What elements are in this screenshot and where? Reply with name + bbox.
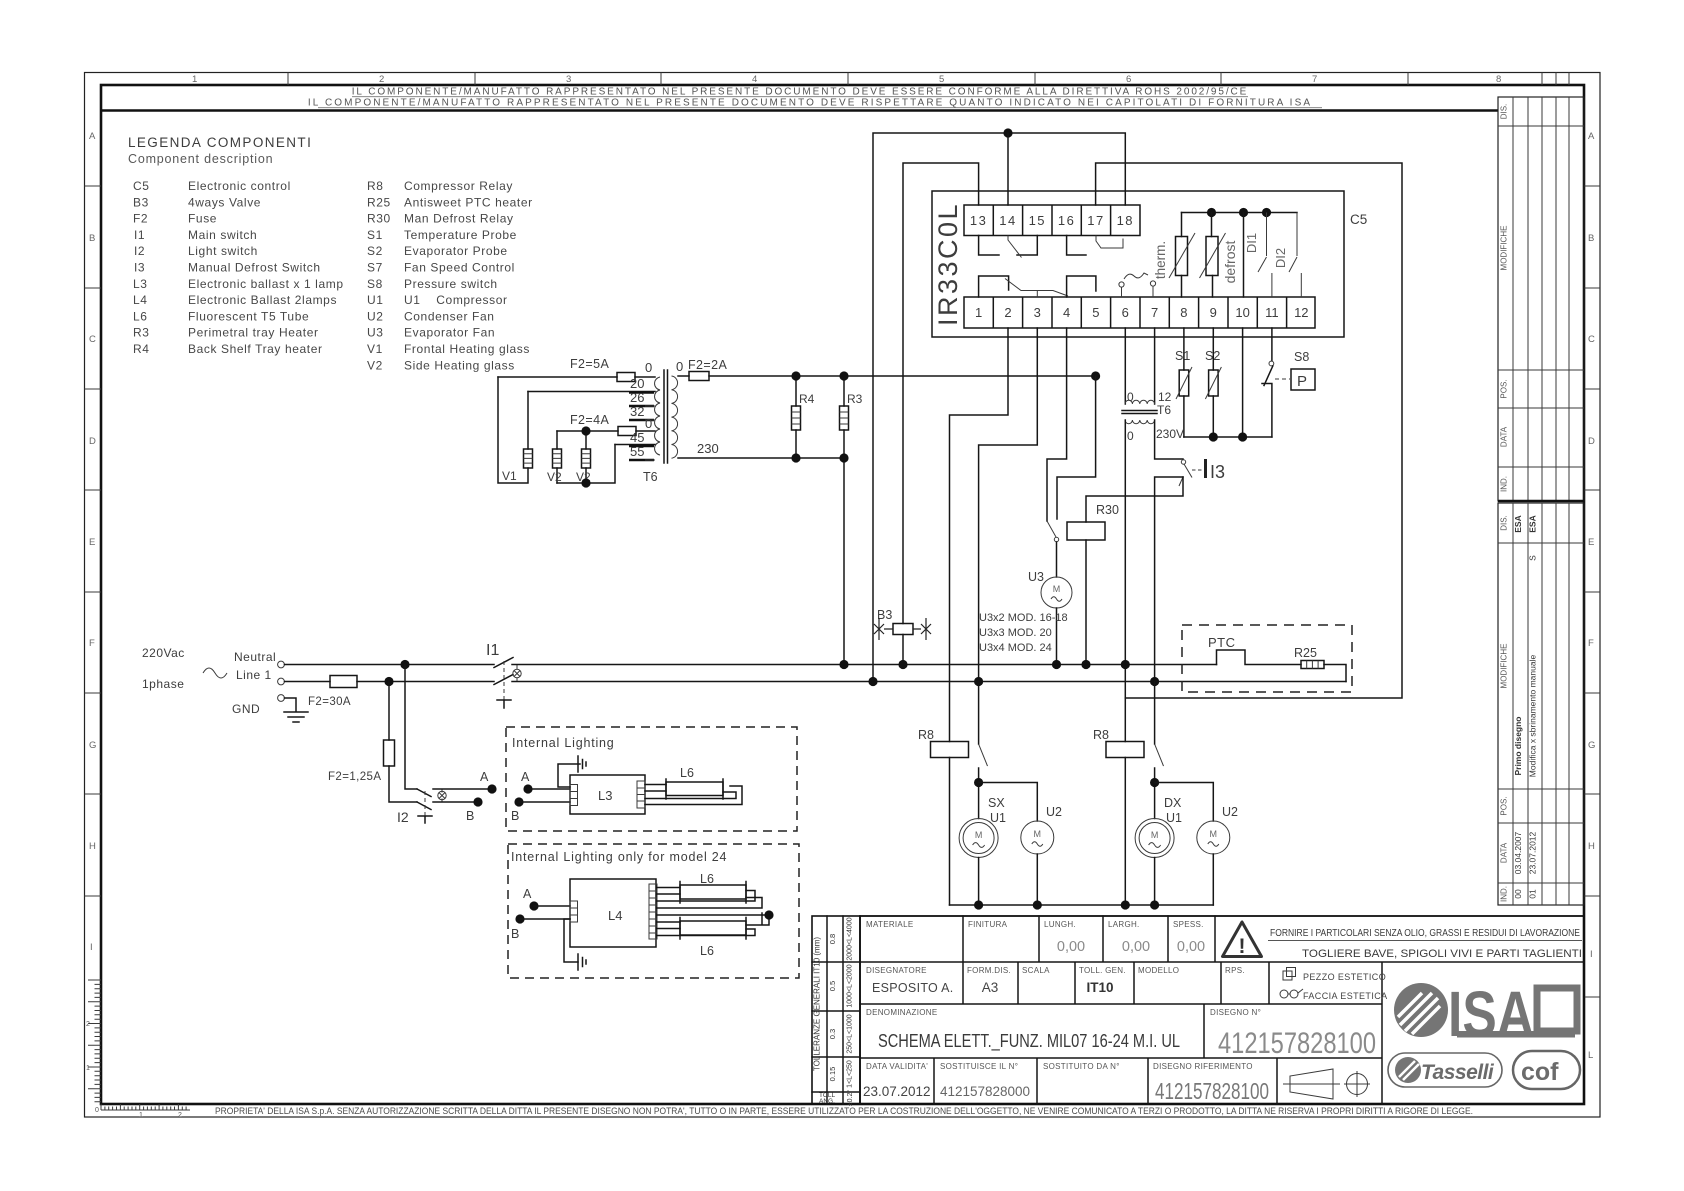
svg-text:U2: U2 bbox=[1222, 805, 1238, 819]
svg-text:U3: U3 bbox=[1028, 570, 1044, 584]
svg-text:03.04.2007: 03.04.2007 bbox=[1513, 831, 1523, 874]
svg-text:S7: S7 bbox=[367, 261, 383, 275]
svg-text:F2=4A: F2=4A bbox=[570, 413, 609, 427]
svg-text:6: 6 bbox=[1122, 305, 1129, 320]
svg-text:7: 7 bbox=[1151, 305, 1158, 320]
junction line A to 14 bbox=[1003, 128, 1012, 137]
wire term4 staircase bbox=[1047, 328, 1067, 521]
COF logo bbox=[1513, 1051, 1580, 1089]
svg-text:F: F bbox=[1588, 638, 1594, 649]
svg-text:Neutral: Neutral bbox=[234, 650, 276, 664]
svg-text:0.5: 0.5 bbox=[828, 981, 837, 991]
svg-text:ANG.: ANG. bbox=[819, 1098, 835, 1105]
svg-text:TOLLERANZE GENERALI IT10 (mm): TOLLERANZE GENERALI IT10 (mm) bbox=[813, 937, 822, 1071]
svg-text:0,00: 0,00 bbox=[1177, 939, 1205, 955]
junction term3 line bus bbox=[974, 677, 983, 686]
changeover contact 3-4-5 bbox=[1067, 276, 1096, 297]
node A inside box2 bbox=[529, 901, 538, 910]
svg-text:412157828000: 412157828000 bbox=[940, 1084, 1030, 1099]
svg-text:Man Defrost Relay: Man Defrost Relay bbox=[404, 212, 514, 226]
svg-text:IND.: IND. bbox=[1500, 886, 1509, 902]
junction R30 neutral bbox=[1081, 660, 1090, 669]
svg-text:17: 17 bbox=[1087, 213, 1104, 228]
terminal Neutral bbox=[278, 661, 285, 668]
projection symbol circle bbox=[1347, 1074, 1368, 1095]
wire pin10 down bbox=[1242, 328, 1244, 437]
svg-text:5: 5 bbox=[939, 74, 944, 85]
svg-text:±0.2°: ±0.2° bbox=[846, 1090, 854, 1107]
svg-text:230V: 230V bbox=[1156, 427, 1184, 441]
svg-text:FACCIA ESTETICA: FACCIA ESTETICA bbox=[1303, 991, 1388, 1001]
internal lighting dashed box bbox=[506, 727, 797, 831]
svg-text:I3: I3 bbox=[1210, 462, 1225, 482]
svg-text:C: C bbox=[89, 334, 96, 345]
motor return bus bbox=[950, 904, 1214, 906]
svg-text:SOSTITUITO DA N°: SOSTITUITO DA N° bbox=[1043, 1062, 1120, 1071]
svg-text:B: B bbox=[511, 927, 519, 941]
svg-text:7: 7 bbox=[1312, 74, 1317, 85]
svg-text:defrost: defrost bbox=[1222, 240, 1238, 283]
svg-text:SOSTITUISCE IL N°: SOSTITUISCE IL N° bbox=[940, 1062, 1018, 1071]
svg-text:B: B bbox=[511, 809, 519, 823]
svg-text:SX: SX bbox=[988, 796, 1005, 810]
heater V1 bbox=[498, 377, 528, 483]
svg-text:G: G bbox=[89, 740, 96, 751]
svg-text:Internal Lighting: Internal Lighting bbox=[512, 736, 615, 750]
svg-text:U1: U1 bbox=[990, 811, 1006, 825]
svg-text:cof: cof bbox=[1521, 1058, 1559, 1086]
svg-text:1: 1 bbox=[139, 1112, 143, 1119]
banner bottom rule bbox=[101, 109, 1498, 111]
svg-text:U3x2 MOD. 16-18: U3x2 MOD. 16-18 bbox=[979, 612, 1068, 624]
svg-text:1: 1 bbox=[975, 305, 982, 320]
svg-text:L6: L6 bbox=[133, 309, 148, 323]
valve B3 left symbol bbox=[874, 618, 893, 640]
svg-text:I1: I1 bbox=[486, 642, 499, 659]
L3 input connector bbox=[570, 785, 578, 806]
svg-text:D: D bbox=[1588, 436, 1595, 447]
L4 input connector bbox=[570, 901, 578, 922]
L3 output connector bbox=[637, 781, 645, 808]
svg-text:L6: L6 bbox=[700, 944, 714, 958]
svg-text:11: 11 bbox=[1265, 305, 1279, 320]
svg-text:A3: A3 bbox=[982, 980, 999, 995]
svg-text:Primo disegno: Primo disegno bbox=[1513, 716, 1523, 775]
svg-text:I2: I2 bbox=[397, 809, 409, 825]
svg-text:PEZZO ESTETICO: PEZZO ESTETICO bbox=[1303, 972, 1386, 982]
wire fuse to I2 bbox=[389, 766, 417, 802]
svg-text:DENOMINAZIONE: DENOMINAZIONE bbox=[866, 1008, 937, 1017]
R8 SX contact bbox=[979, 744, 988, 766]
svg-text:Frontal Heating glass: Frontal Heating glass bbox=[404, 342, 530, 356]
junction U3 neutral bbox=[1052, 660, 1061, 669]
LEGEND bbox=[128, 135, 533, 372]
svg-text:IL COMPONENTE/MANUFATTO RAPPRE: IL COMPONENTE/MANUFATTO RAPPRESENTATO NE… bbox=[352, 87, 1248, 98]
svg-text:C: C bbox=[1588, 334, 1595, 345]
svg-text:F2: F2 bbox=[133, 212, 148, 226]
faccia estetica icon bbox=[1280, 989, 1303, 998]
wire A to L3 bbox=[528, 788, 570, 790]
svg-text:B: B bbox=[466, 809, 474, 823]
svg-text:F2=2A: F2=2A bbox=[688, 358, 727, 372]
svg-text:SCALA: SCALA bbox=[1022, 966, 1050, 975]
svg-text:230: 230 bbox=[697, 441, 719, 456]
wire tap 20 bbox=[528, 391, 655, 393]
svg-text:0.8: 0.8 bbox=[828, 934, 837, 944]
svg-text:0.3: 0.3 bbox=[828, 1029, 837, 1039]
svg-text:TOGLIERE BAVE, SPIGOLI VIVI E: TOGLIERE BAVE, SPIGOLI VIVI E PARTI TAGL… bbox=[1302, 948, 1582, 960]
L4 ground wire bbox=[564, 919, 578, 962]
transformer core bbox=[1122, 411, 1157, 414]
fuse F2=1,25A bbox=[384, 740, 395, 766]
node A dot bbox=[487, 784, 496, 793]
wire line B left to 13 bbox=[903, 163, 979, 624]
svg-text:Electronic Ballast 2lamps: Electronic Ballast 2lamps bbox=[188, 293, 337, 307]
pin 7 supply circle bbox=[1150, 281, 1155, 286]
junction term6 line on neutral bbox=[1121, 660, 1130, 669]
svg-text:L3: L3 bbox=[133, 277, 148, 291]
svg-text:Temperature Probe: Temperature Probe bbox=[404, 228, 517, 242]
lamp symbol on I2 bbox=[438, 791, 446, 799]
ground symbol bbox=[284, 698, 308, 722]
svg-text:412157828100: 412157828100 bbox=[1218, 1027, 1376, 1060]
wire term5 staircase bbox=[1057, 376, 1096, 519]
DI2 contact bbox=[1289, 213, 1301, 298]
terminal strip 13-18 bbox=[964, 205, 1140, 236]
svg-text:4: 4 bbox=[752, 74, 757, 85]
svg-text:U3x3 MOD. 20: U3x3 MOD. 20 bbox=[979, 627, 1052, 639]
svg-text:U2: U2 bbox=[367, 309, 384, 323]
svg-text:H: H bbox=[89, 841, 96, 852]
PTC dashed box bbox=[1182, 625, 1352, 692]
svg-text:S: S bbox=[1528, 555, 1538, 561]
wire line bus left bbox=[357, 681, 494, 683]
svg-text:IL COMPONENTE/MANUFATTO RAPPRE: IL COMPONENTE/MANUFATTO RAPPRESENTATO NE… bbox=[308, 98, 1312, 109]
svg-text:412157828100: 412157828100 bbox=[1155, 1078, 1269, 1104]
internal lighting 24 dashed box bbox=[508, 844, 799, 978]
fuse F2=30A bbox=[330, 676, 357, 688]
svg-text:L4: L4 bbox=[608, 908, 622, 923]
svg-text:2000<L<4000: 2000<L<4000 bbox=[847, 917, 854, 960]
svg-text:R3: R3 bbox=[133, 326, 150, 340]
svg-text:Component description: Component description bbox=[128, 152, 273, 166]
svg-text:F2=5A: F2=5A bbox=[570, 357, 609, 371]
revision table block 1 bbox=[1498, 97, 1584, 501]
svg-text:Pressure switch: Pressure switch bbox=[404, 277, 498, 291]
svg-text:I: I bbox=[90, 942, 93, 953]
junction term5 wire bbox=[1091, 371, 1100, 380]
condenser fan U2 SX bbox=[979, 783, 1038, 822]
left row ticks bbox=[85, 186, 102, 896]
svg-text:6: 6 bbox=[1126, 74, 1131, 85]
svg-text:MODIFICHE: MODIFICHE bbox=[1500, 644, 1509, 689]
title block outer box bbox=[860, 916, 1584, 1104]
ISA logo bbox=[1394, 978, 1577, 1050]
svg-text:12: 12 bbox=[1158, 390, 1172, 404]
svg-text:ESA: ESA bbox=[1513, 515, 1523, 532]
svg-text:8: 8 bbox=[1180, 305, 1187, 320]
svg-text:SPESS.: SPESS. bbox=[1173, 920, 1204, 929]
wire B to L3 bbox=[519, 801, 570, 803]
svg-text:0.15: 0.15 bbox=[828, 1067, 837, 1082]
svg-text:5: 5 bbox=[1092, 305, 1099, 320]
R25 return wire bbox=[1324, 665, 1346, 682]
svg-text:GND: GND bbox=[232, 702, 260, 716]
svg-text:C5: C5 bbox=[133, 179, 150, 193]
svg-text:U1 Compressor: U1 Compressor bbox=[404, 293, 508, 307]
TITLEBLOCK bbox=[215, 97, 1584, 1116]
svg-text:D: D bbox=[89, 436, 96, 447]
valve B3 coil bbox=[893, 624, 913, 635]
svg-text:Antisweet PTC heater: Antisweet PTC heater bbox=[404, 195, 533, 209]
svg-text:1000<L<2000: 1000<L<2000 bbox=[847, 964, 854, 1007]
node B inside box1 bbox=[514, 797, 523, 806]
projection symbol cone bbox=[1283, 1069, 1340, 1099]
wire R30 to neutral bbox=[1085, 540, 1087, 665]
svg-text:8: 8 bbox=[1496, 74, 1501, 85]
wire I2 to B bbox=[433, 801, 478, 803]
svg-text:F2=30A: F2=30A bbox=[308, 696, 351, 708]
svg-text:DX: DX bbox=[1164, 796, 1182, 810]
wire term6 to transformer bbox=[1124, 328, 1126, 404]
DI1 contact bbox=[1258, 213, 1272, 298]
svg-text:E: E bbox=[1588, 537, 1594, 548]
wire neutral bus right of I1 bbox=[512, 664, 1217, 666]
terminal numbers 13-18 bbox=[970, 213, 1134, 228]
fuse F2=2A bbox=[689, 372, 709, 381]
svg-text:23.07.2012: 23.07.2012 bbox=[863, 1084, 931, 1099]
pin 10 common riser bbox=[1243, 213, 1245, 298]
svg-text:M: M bbox=[1210, 829, 1218, 839]
junction B3 neutral bbox=[898, 660, 907, 669]
svg-text:1phase: 1phase bbox=[142, 677, 184, 691]
svg-text:R3: R3 bbox=[847, 392, 863, 406]
svg-text:9: 9 bbox=[1210, 305, 1217, 320]
svg-text:4ways Valve: 4ways Valve bbox=[188, 195, 261, 209]
svg-text:1<L<250: 1<L<250 bbox=[847, 1060, 854, 1088]
terminal GND bbox=[278, 695, 285, 702]
svg-text:therm.: therm. bbox=[1153, 241, 1168, 279]
svg-text:F2=1,25A: F2=1,25A bbox=[328, 771, 381, 783]
svg-text:DATA: DATA bbox=[1500, 426, 1509, 447]
title block inner lines bbox=[860, 916, 1584, 1104]
svg-text:L6: L6 bbox=[700, 872, 714, 886]
svg-text:FORNIRE I PARTICOLARI SENZA OL: FORNIRE I PARTICOLARI SENZA OLIO, GRASSI… bbox=[1270, 928, 1580, 939]
node B inside box2 bbox=[515, 914, 524, 923]
wire 230V right to I3 bbox=[1155, 420, 1183, 459]
svg-text:G: G bbox=[1588, 740, 1595, 751]
switch I2 bbox=[417, 789, 431, 810]
svg-text:20: 20 bbox=[630, 376, 644, 391]
svg-text:V1: V1 bbox=[367, 342, 383, 356]
L6 interconnect wires box2 bbox=[657, 891, 769, 936]
svg-text:4: 4 bbox=[1063, 305, 1070, 320]
svg-text:R30: R30 bbox=[1096, 503, 1119, 517]
svg-text:U1: U1 bbox=[367, 293, 384, 307]
svg-text:R30: R30 bbox=[367, 212, 391, 226]
wire A to L4 bbox=[534, 905, 570, 907]
junction lineA on line bus bbox=[868, 677, 877, 686]
wire secondary 0 to term5 bbox=[678, 375, 1096, 377]
wire right frame bottom bbox=[1124, 758, 1126, 906]
lamp symbol on I1 bbox=[513, 669, 521, 677]
cell labels row4 bbox=[866, 1062, 1253, 1071]
svg-text:IT10: IT10 bbox=[1086, 980, 1113, 995]
svg-text:3: 3 bbox=[566, 74, 571, 85]
svg-text:I1: I1 bbox=[134, 228, 145, 242]
right row ticks bbox=[1584, 186, 1600, 997]
svg-text:I3: I3 bbox=[134, 261, 145, 275]
svg-text:R25: R25 bbox=[367, 195, 391, 209]
cell labels row2 bbox=[866, 966, 1245, 975]
junction right of lamps bbox=[764, 910, 773, 919]
svg-text:DISEGNATORE: DISEGNATORE bbox=[866, 966, 927, 975]
GRID-REF-STRIPS bbox=[85, 73, 1601, 1120]
svg-text:0,00: 0,00 bbox=[1057, 939, 1085, 955]
svg-text:0: 0 bbox=[645, 360, 652, 375]
valve B3 right symbol bbox=[913, 618, 931, 640]
svg-text:Tasselli: Tasselli bbox=[1421, 1061, 1495, 1084]
junction DX feed on line bus bbox=[1150, 677, 1159, 686]
controller C5 box bbox=[932, 191, 1344, 337]
svg-text:R25: R25 bbox=[1294, 646, 1317, 660]
thermistor input 1 bbox=[1181, 213, 1183, 298]
svg-text:C5: C5 bbox=[1350, 212, 1367, 227]
svg-text:DI1: DI1 bbox=[1244, 233, 1259, 253]
PTC hump wire bbox=[1217, 650, 1302, 665]
svg-text:13: 13 bbox=[970, 213, 987, 228]
svg-text:MATERIALE: MATERIALE bbox=[866, 920, 913, 929]
svg-text:26: 26 bbox=[630, 390, 644, 405]
svg-text:LARGH.: LARGH. bbox=[1108, 920, 1140, 929]
pin 6 supply circle bbox=[1119, 282, 1124, 287]
svg-text:I: I bbox=[1590, 949, 1593, 960]
svg-text:LUNGH.: LUNGH. bbox=[1044, 920, 1076, 929]
svg-text:0: 0 bbox=[1127, 390, 1134, 404]
svg-text:18: 18 bbox=[1117, 213, 1134, 228]
svg-text:23.07.2012: 23.07.2012 bbox=[1528, 831, 1538, 874]
terminal Line bbox=[278, 678, 285, 685]
svg-text:0,00: 0,00 bbox=[1122, 939, 1150, 955]
R30 contact bbox=[1047, 521, 1056, 537]
switch I3 bbox=[1181, 460, 1185, 464]
svg-text:RPS.: RPS. bbox=[1225, 966, 1245, 975]
wire tap 0b with fuse bbox=[557, 430, 655, 432]
svg-text:DI2: DI2 bbox=[1273, 248, 1288, 268]
BANNER bbox=[101, 87, 1498, 111]
svg-text:Electronic control: Electronic control bbox=[188, 179, 291, 193]
wire line B right segment bbox=[1096, 163, 1402, 698]
svg-text:15: 15 bbox=[1029, 213, 1046, 228]
wire term3 staircase bbox=[979, 328, 1038, 744]
top column ticks bbox=[288, 73, 1569, 86]
svg-text:!: ! bbox=[1239, 935, 1246, 958]
svg-text:Evaporator Fan: Evaporator Fan bbox=[404, 326, 495, 340]
svg-text:45: 45 bbox=[630, 430, 644, 445]
svg-text:FORM.DIS.: FORM.DIS. bbox=[967, 966, 1011, 975]
terminal numbers 1-12 bbox=[975, 305, 1309, 320]
svg-text:55: 55 bbox=[630, 444, 644, 459]
transformer T6 core bbox=[664, 370, 668, 463]
svg-text:Perimetral tray Heater: Perimetral tray Heater bbox=[188, 326, 319, 340]
svg-text:DATA: DATA bbox=[1500, 842, 1509, 863]
changeover contact 1-2-3 bbox=[979, 276, 1009, 297]
svg-text:01: 01 bbox=[1528, 889, 1538, 899]
svg-text:IR33C0L: IR33C0L bbox=[933, 202, 963, 326]
svg-text:A: A bbox=[523, 887, 532, 901]
svg-text:0: 0 bbox=[1127, 429, 1134, 443]
svg-text:L6: L6 bbox=[680, 766, 694, 780]
svg-text:DATA VALIDITA': DATA VALIDITA' bbox=[866, 1062, 928, 1071]
junction R3 to neutral bus bbox=[839, 660, 848, 669]
svg-text:A: A bbox=[1588, 131, 1595, 142]
bottom margin ruler bbox=[101, 1104, 190, 1119]
svg-text:32: 32 bbox=[630, 404, 644, 419]
svg-text:DISEGNO N°: DISEGNO N° bbox=[1210, 1008, 1261, 1017]
ground symbol L4 bbox=[578, 954, 586, 970]
svg-text:IND.: IND. bbox=[1500, 476, 1509, 492]
wire term2 staircase to R8sx bbox=[950, 328, 1009, 742]
svg-text:U2: U2 bbox=[1046, 805, 1062, 819]
svg-text:T6: T6 bbox=[1157, 403, 1171, 417]
wire line A top bbox=[873, 133, 1125, 682]
transformer 230V winding bbox=[1125, 420, 1155, 424]
supply sine symbol bbox=[203, 668, 227, 678]
svg-text:Side Heating glass: Side Heating glass bbox=[404, 358, 515, 372]
ground symbol L3 bbox=[578, 756, 586, 772]
wire 230V left down (term6 column) bbox=[1124, 420, 1126, 742]
svg-text:Evaporator Probe: Evaporator Probe bbox=[404, 244, 508, 258]
relay contact 13-14-15 bbox=[979, 236, 999, 256]
svg-text:V2: V2 bbox=[367, 358, 383, 372]
svg-text:ESA: ESA bbox=[1528, 515, 1538, 532]
L3 ground wire bbox=[558, 764, 580, 787]
svg-text:Electronic ballast x 1 lamp: Electronic ballast x 1 lamp bbox=[188, 277, 344, 291]
svg-text:ESPOSITO A.: ESPOSITO A. bbox=[872, 981, 954, 995]
svg-text:H: H bbox=[1588, 841, 1595, 852]
svg-text:14: 14 bbox=[999, 213, 1016, 228]
svg-text:250<L<1000: 250<L<1000 bbox=[847, 1014, 854, 1053]
svg-text:S1: S1 bbox=[367, 228, 383, 242]
svg-text:FINITURA: FINITURA bbox=[968, 920, 1008, 929]
revision table block 2 bbox=[1498, 503, 1584, 905]
junction V2 top bbox=[581, 426, 590, 435]
svg-text:3: 3 bbox=[1034, 305, 1041, 320]
wire line drop to fuse bbox=[388, 682, 390, 741]
svg-text:B: B bbox=[89, 233, 95, 244]
T6 secondary winding bbox=[672, 376, 678, 458]
left margin ruler bbox=[86, 980, 101, 1114]
warning triangle bbox=[1223, 922, 1262, 957]
svg-text:Modifica x sbrinamento manuale: Modifica x sbrinamento manuale bbox=[1528, 655, 1538, 778]
svg-text:0: 0 bbox=[645, 416, 652, 431]
svg-text:LEGENDA COMPONENTI: LEGENDA COMPONENTI bbox=[128, 135, 312, 150]
junction DX branch bbox=[1150, 778, 1159, 787]
wire B to L4 bbox=[520, 918, 570, 920]
svg-text:PTC: PTC bbox=[1208, 635, 1236, 650]
svg-text:A: A bbox=[89, 131, 96, 142]
svg-text:10: 10 bbox=[1235, 305, 1249, 320]
svg-text:DIS.: DIS. bbox=[1500, 515, 1509, 531]
svg-text:Light switch: Light switch bbox=[188, 244, 258, 258]
fuse F2=5A bbox=[617, 373, 635, 382]
svg-text:MODELLO: MODELLO bbox=[1138, 966, 1179, 975]
ballast L4 bbox=[570, 879, 656, 947]
svg-text:S8: S8 bbox=[1294, 350, 1309, 364]
sensor common rail bbox=[1184, 436, 1272, 438]
wire line to fuse F2=30A bbox=[285, 681, 331, 683]
svg-text:2: 2 bbox=[86, 1021, 90, 1028]
